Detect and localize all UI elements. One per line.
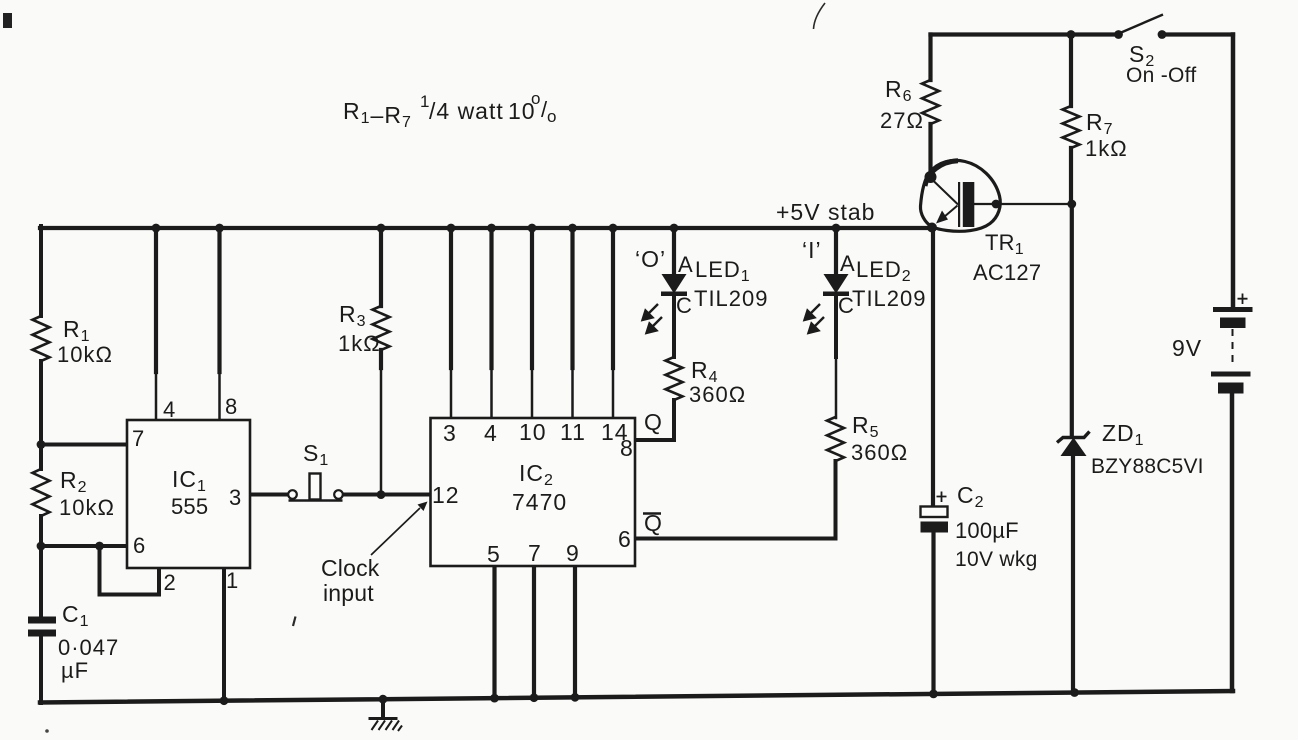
svg-text:C: C xyxy=(676,293,693,318)
wire IC2 pin7 xyxy=(532,566,536,698)
op-amp IC1 555 box xyxy=(127,420,250,568)
wire right edge battery xyxy=(1232,35,1233,692)
transistor TR1 AC127 xyxy=(920,160,1000,231)
resistor R1 xyxy=(33,316,50,361)
svg-text:5: 5 xyxy=(487,541,501,567)
svg-text:1: 1 xyxy=(226,568,239,593)
svg-text:3: 3 xyxy=(229,485,242,510)
scan artifacts xyxy=(3,3,825,733)
svg-text:On -Off: On -Off xyxy=(1126,64,1197,87)
svg-text:‘I’: ‘I’ xyxy=(802,237,822,263)
wire IC1 pin7 xyxy=(41,443,128,447)
wire IC2 pin6 Qbar to R5 xyxy=(635,461,836,539)
svg-text:27Ω: 27Ω xyxy=(880,108,924,133)
wire IC2 top pin at x=572.5 xyxy=(570,228,574,368)
wire IC2 pin5 xyxy=(492,566,496,698)
wire R3 vertical xyxy=(379,228,383,368)
wire LED1 cathode to R4 xyxy=(672,295,676,357)
resistor R4 xyxy=(666,357,683,400)
svg-text:C1: C1 xyxy=(62,601,90,630)
wire IC1 pin2 loop xyxy=(100,546,160,595)
svg-text:4: 4 xyxy=(163,397,176,422)
svg-text:10kΩ: 10kΩ xyxy=(59,495,115,520)
svg-text:‘O’: ‘O’ xyxy=(635,246,666,272)
svg-text:input: input xyxy=(323,580,374,606)
wire +5V top rail xyxy=(40,226,932,230)
svg-text:C2: C2 xyxy=(957,482,985,511)
wire IC2 top pin at x=613 xyxy=(611,228,615,368)
svg-text:R5: R5 xyxy=(852,412,880,441)
resistor R2 xyxy=(33,469,50,516)
wire IC2 top pin at x=451 xyxy=(449,228,453,368)
resistor R7 xyxy=(1063,106,1080,148)
wire LED2 anode xyxy=(834,228,838,275)
svg-text:10V wkg: 10V wkg xyxy=(955,548,1038,571)
wire IC2 pin8 Q to R4 xyxy=(635,400,674,440)
svg-text:555: 555 xyxy=(171,494,208,519)
svg-text:6: 6 xyxy=(133,533,146,558)
TR1 emitter dot xyxy=(927,223,937,233)
wire IC2 top pin at x=532 xyxy=(530,228,534,368)
wire IC1 pin3 to S1 xyxy=(250,493,289,497)
svg-text:11: 11 xyxy=(560,419,586,445)
svg-text:S1: S1 xyxy=(303,440,329,469)
svg-text:R6: R6 xyxy=(885,76,913,105)
wire S1 to IC2 pin12 xyxy=(343,493,431,497)
wire IC1 pin4 xyxy=(154,228,158,372)
LED1 TIL209 xyxy=(661,274,687,296)
wire top-right rail xyxy=(931,32,1234,36)
wire R6 leads xyxy=(928,35,932,173)
TR1 collector dot xyxy=(925,171,937,183)
svg-text:A: A xyxy=(840,251,856,276)
svg-text:7470: 7470 xyxy=(512,489,567,515)
wire left bus vertical xyxy=(39,226,43,703)
svg-text:A: A xyxy=(678,252,694,277)
wire LED1 anode xyxy=(672,228,676,275)
svg-text:7: 7 xyxy=(528,540,542,566)
svg-text:LED2: LED2 xyxy=(856,257,912,285)
svg-text:o: o xyxy=(531,89,541,108)
zener diode ZD1 xyxy=(1057,432,1090,457)
svg-text:9V: 9V xyxy=(1172,335,1202,361)
svg-text:360Ω: 360Ω xyxy=(689,382,746,407)
svg-text:10: 10 xyxy=(519,419,547,445)
capacitor C1 xyxy=(28,617,56,637)
LED2 TIL209 xyxy=(823,274,849,296)
svg-text:TIL209: TIL209 xyxy=(852,286,927,311)
resistor R5 xyxy=(827,417,844,461)
wire 0V bottom rail xyxy=(40,691,1233,703)
svg-text:9: 9 xyxy=(566,540,580,566)
clock input arrow xyxy=(371,502,428,556)
svg-text:Clock: Clock xyxy=(321,555,380,581)
wire IC1 pin8 xyxy=(217,228,221,372)
battery plus sign xyxy=(1238,294,1248,305)
svg-text:/4 watt: /4 watt xyxy=(429,98,504,124)
svg-text:Q: Q xyxy=(644,409,663,435)
switch S1 xyxy=(288,474,343,501)
wire ground stub xyxy=(381,700,385,717)
wire LED2 cathode to R5 xyxy=(834,295,838,357)
svg-text:TR1: TR1 xyxy=(985,230,1024,258)
svg-text:AC127: AC127 xyxy=(973,260,1041,285)
wire IC2 pin9 xyxy=(573,566,577,697)
svg-text:10kΩ: 10kΩ xyxy=(57,342,113,367)
op-amp IC2 7470 box xyxy=(431,418,636,566)
svg-text:R2: R2 xyxy=(60,467,88,496)
wire TR1 emitter / C2 vertical xyxy=(931,228,935,507)
svg-text:8: 8 xyxy=(620,435,634,461)
wire IC2 top pin at x=491.5 xyxy=(489,228,493,368)
svg-text:R1–R7: R1–R7 xyxy=(343,98,412,131)
svg-text:TIL209: TIL209 xyxy=(694,286,769,311)
svg-text:2: 2 xyxy=(164,570,177,595)
wire IC1 pin1 xyxy=(222,568,226,701)
battery 9V xyxy=(1211,294,1253,394)
svg-text:0·047: 0·047 xyxy=(58,635,119,660)
LED1 light arrows xyxy=(643,304,663,333)
svg-text:BZY88C5VI: BZY88C5VI xyxy=(1091,455,1204,478)
wire IC1 pin6 xyxy=(41,544,128,548)
wire TR1 base to R7 xyxy=(975,203,1072,205)
svg-text:o: o xyxy=(547,107,557,126)
svg-text:3: 3 xyxy=(443,420,457,446)
svg-text:R7: R7 xyxy=(1086,109,1114,138)
svg-text:+5V stab: +5V stab xyxy=(776,199,875,225)
resistor R6 xyxy=(922,80,939,124)
svg-text:LED1: LED1 xyxy=(695,257,751,285)
svg-text:µF: µF xyxy=(61,658,89,683)
switch S2 lever xyxy=(1120,15,1163,34)
svg-text:1kΩ: 1kΩ xyxy=(1085,136,1128,161)
svg-text:R3: R3 xyxy=(339,301,367,330)
svg-text:6: 6 xyxy=(618,526,632,552)
C2 plus sign xyxy=(937,492,947,503)
wire R7 vertical xyxy=(1071,35,1073,693)
capacitor C2 xyxy=(921,507,949,533)
resistor R3 xyxy=(373,306,390,350)
LED2 light arrows xyxy=(805,304,825,333)
svg-text:R1: R1 xyxy=(63,316,91,345)
svg-text:100µF: 100µF xyxy=(955,518,1019,543)
svg-text:360Ω: 360Ω xyxy=(851,440,908,465)
ground symbol xyxy=(369,719,403,732)
svg-text:1kΩ: 1kΩ xyxy=(338,331,381,356)
svg-text:12: 12 xyxy=(432,482,460,508)
svg-text:7: 7 xyxy=(132,426,145,451)
svg-text:ZD1: ZD1 xyxy=(1102,420,1145,449)
svg-text:4: 4 xyxy=(484,420,498,446)
svg-text:8: 8 xyxy=(225,394,238,419)
